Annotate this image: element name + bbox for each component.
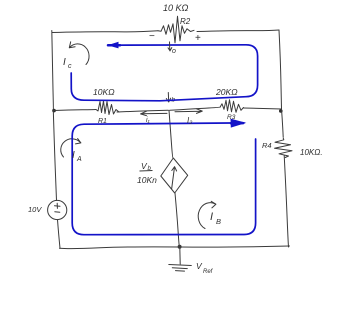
wire middle horizontal right	[244, 108, 282, 109]
resistor R4	[275, 138, 293, 158]
wire middle horizontal 3	[170, 107, 220, 110]
wire top-left segment	[52, 31, 158, 33]
wire center vertical lower	[175, 193, 179, 247]
svg-text:R4: R4	[262, 141, 272, 150]
node junction left dot	[52, 109, 56, 113]
wire right edge upper	[279, 30, 282, 109]
ground bar 1	[169, 265, 192, 266]
mesh symbol IA arc	[61, 139, 81, 158]
svg-text:10V: 10V	[28, 205, 42, 214]
mesh loop Ic arrowhead	[108, 44, 120, 47]
svg-text:10 KΩ: 10 KΩ	[163, 3, 189, 13]
svg-text:20KΩ: 20KΩ	[215, 87, 238, 97]
mesh current loop Ic (blue upper)	[71, 42, 257, 235]
fraction bar	[140, 170, 153, 173]
svg-text:I: I	[72, 150, 75, 161]
mesh loop IB arrowhead	[231, 122, 243, 125]
wire left edge upper	[52, 31, 54, 111]
wire bottom	[60, 246, 290, 249]
svg-text:R3: R3	[227, 114, 236, 121]
dependent current source diamond	[161, 158, 188, 193]
svg-text:c: c	[68, 63, 72, 70]
svg-text:A: A	[76, 156, 82, 163]
wire middle horizontal left	[53, 110, 96, 111]
wire center vertical upper	[169, 110, 173, 158]
mesh symbol IB arc	[198, 201, 216, 228]
resistor R2	[158, 16, 194, 43]
svg-text:10KΩ.: 10KΩ.	[300, 148, 323, 157]
svg-text:Ref: Ref	[203, 269, 214, 275]
svg-text:B: B	[216, 217, 221, 226]
mesh symbol Ic circle	[69, 42, 89, 65]
wire top-right segment	[197, 30, 279, 32]
dependent source arrow	[172, 167, 177, 189]
svg-text:R2: R2	[180, 17, 191, 26]
svg-text:R1: R1	[98, 118, 107, 125]
wire right edge lower	[284, 156, 288, 248]
wire right edge middle	[282, 109, 284, 137]
mesh current loop IA-IB (blue lower)	[72, 123, 255, 235]
svg-text:10Kn: 10Kn	[137, 175, 157, 185]
ground bar 2	[172, 267, 187, 270]
svg-text:I: I	[63, 57, 66, 68]
svg-text:+: +	[195, 33, 201, 44]
svg-text:V: V	[196, 261, 203, 271]
voltage source V1	[48, 200, 67, 219]
ground bar 3	[176, 270, 185, 273]
svg-text:o: o	[172, 48, 176, 55]
node voltage vb arrow	[166, 93, 170, 103]
svg-text:−: −	[149, 31, 155, 42]
wire below source	[58, 220, 61, 249]
node dot ground	[178, 245, 182, 249]
branch current i2 arrow	[175, 109, 202, 114]
ground stub	[179, 247, 181, 264]
resistor R1	[96, 101, 119, 115]
wire left edge middle	[53, 110, 56, 200]
voltage source minus	[55, 211, 60, 213]
label v0 arrow	[168, 42, 172, 51]
svg-text:I₂: I₂	[187, 116, 192, 125]
branch current i1 arrow	[141, 111, 168, 116]
resistor R3	[220, 100, 244, 113]
wire middle horizontal 2	[117, 110, 168, 112]
svg-text:10KΩ: 10KΩ	[93, 87, 115, 97]
node junction right dot	[279, 109, 283, 113]
voltage source plus	[55, 203, 61, 208]
svg-text:I: I	[210, 211, 213, 223]
